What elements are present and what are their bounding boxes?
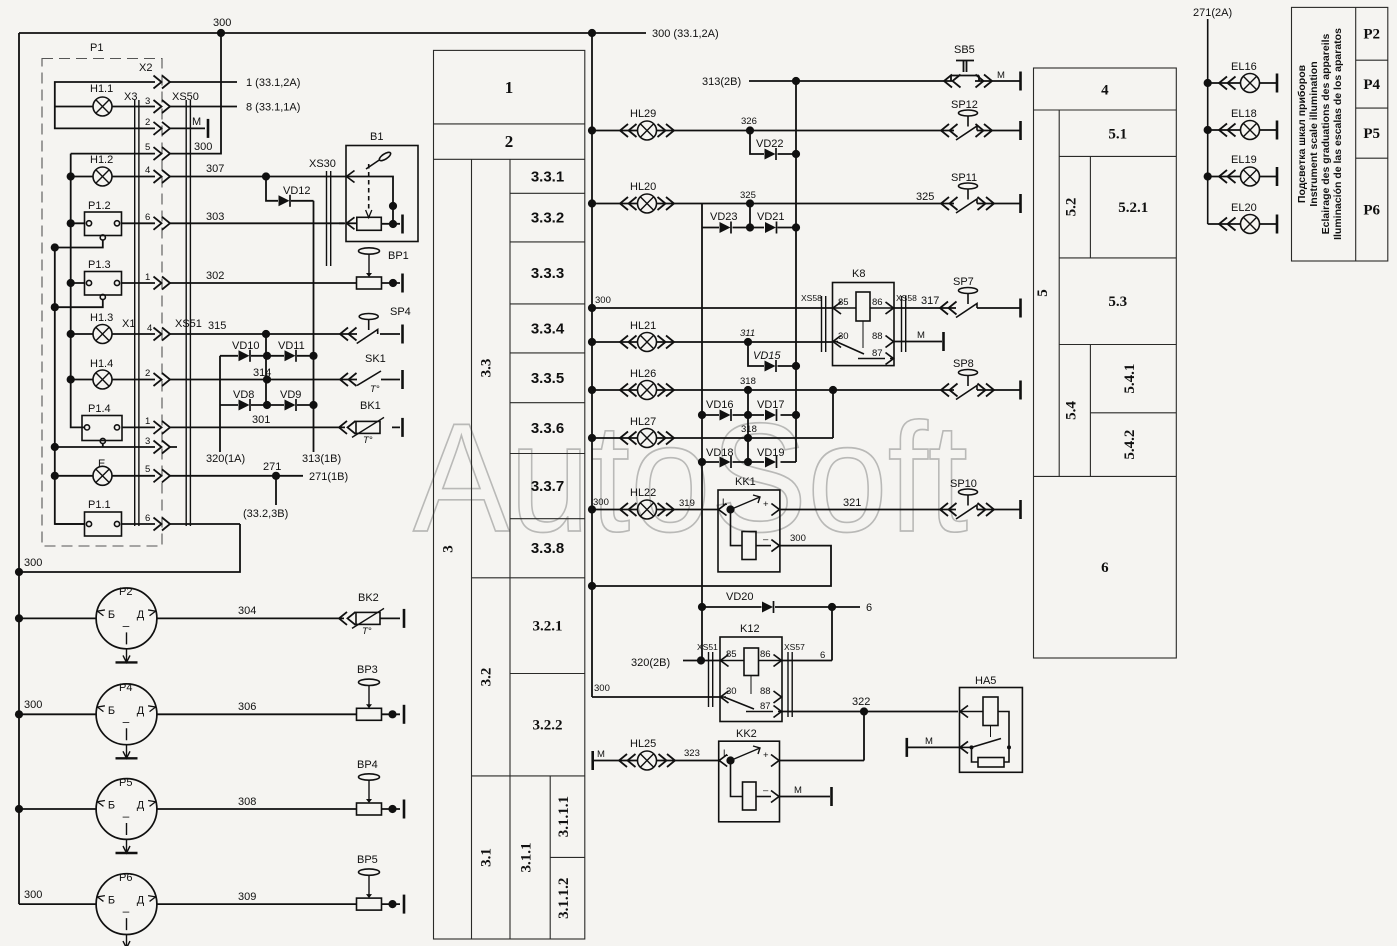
node VD20 out — [828, 603, 836, 611]
svg-text:VD10: VD10 — [232, 340, 260, 352]
wire V3 — [55, 248, 85, 525]
svg-text:3.3.4: 3.3.4 — [531, 320, 565, 337]
node VD15 busB — [792, 362, 800, 370]
wire busB 313 — [795, 81, 797, 462]
node H1.2 left — [67, 172, 75, 180]
node 322 — [860, 707, 868, 715]
wire HL26 row 318 — [592, 389, 1020, 391]
node H1.3 row — [262, 330, 270, 338]
svg-text:SP4: SP4 — [390, 306, 411, 318]
lamp H1.3 — [93, 325, 112, 344]
svg-text:271(2A): 271(2A) — [1193, 7, 1232, 19]
node HL22 bus — [588, 505, 596, 513]
svg-text:313(2B): 313(2B) — [702, 76, 741, 88]
svg-text:HA5: HA5 — [975, 675, 996, 687]
wire H1.2 row — [71, 176, 339, 178]
svg-text:2: 2 — [145, 368, 150, 379]
node BP4 out — [388, 805, 396, 813]
lamp HL21 — [638, 333, 657, 352]
svg-text:M: M — [794, 785, 802, 796]
lamp EL18 — [1241, 121, 1260, 140]
svg-text:3.1: 3.1 — [479, 848, 495, 867]
terminator SP7 — [1020, 299, 1022, 318]
node 318 riser — [829, 386, 837, 394]
relay K8 — [833, 283, 895, 366]
wire 300 drop to row5 — [170, 33, 221, 154]
node 320(2B) busA — [697, 656, 705, 664]
svg-text:1 (33.1,2A): 1 (33.1,2A) — [246, 77, 300, 89]
node VD9 right — [309, 401, 317, 409]
svg-text:Iluminación de las escalas de: Iluminación de las escalas de los aparat… — [1332, 28, 1344, 240]
svg-text:300: 300 — [24, 699, 42, 711]
connector XS57 K12 — [788, 652, 792, 717]
svg-text:BK2: BK2 — [358, 592, 379, 604]
svg-text:M: M — [997, 70, 1005, 81]
lamp HL27 — [638, 429, 657, 448]
svg-text:P5: P5 — [1363, 126, 1380, 142]
wire K12 86 out — [782, 660, 832, 662]
svg-text:3: 3 — [145, 96, 150, 107]
node 313(2B)/busB — [792, 77, 800, 85]
terminator BK1 — [402, 418, 404, 437]
connector XS58 left — [822, 296, 826, 352]
terminator SK1 — [402, 370, 404, 389]
svg-text:HL20: HL20 — [630, 181, 656, 193]
svg-text:311: 311 — [740, 328, 755, 339]
wire P6 row 309 — [19, 903, 400, 905]
connector X3/X1 double line — [135, 100, 139, 526]
node VD18/19 mid — [744, 458, 752, 466]
wire H1.4 row pin2 314 — [71, 379, 340, 381]
terminator SB5 — [1020, 72, 1022, 91]
wire 320(1A) vertical — [219, 356, 221, 452]
svg-text:3.1.1: 3.1.1 — [519, 843, 535, 873]
wire 271 drop — [275, 476, 277, 505]
svg-text:5.4.1: 5.4.1 — [1122, 364, 1138, 394]
svg-text:BP4: BP4 — [357, 759, 378, 771]
svg-text:X2: X2 — [139, 62, 152, 74]
diode VD17 — [765, 409, 777, 421]
lamp HL26 — [638, 381, 657, 400]
gauge P2 — [96, 588, 157, 662]
svg-text:X1: X1 — [122, 318, 135, 330]
sender BP1 — [357, 248, 382, 289]
svg-text:1: 1 — [145, 272, 150, 283]
wire SP4 row — [340, 333, 400, 335]
sender BP5 — [357, 869, 382, 910]
terminator BK2 — [403, 609, 405, 628]
wire V2 feed — [71, 154, 82, 428]
diode VD15 — [765, 360, 777, 372]
lamp EL20 — [1241, 215, 1260, 234]
svg-text:X3: X3 — [124, 91, 137, 103]
lamp HL22 — [638, 500, 657, 519]
lamp H1.2 — [93, 167, 112, 186]
svg-text:–: – — [763, 534, 769, 545]
wire KK2 minus out — [780, 796, 831, 798]
wire P1.3 bottom to V3 — [55, 300, 103, 308]
wire VD18/VD19 row — [702, 461, 796, 463]
node VD8 mid — [263, 401, 271, 409]
svg-text:P2: P2 — [1363, 27, 1380, 43]
switch SK1 thermal — [357, 371, 381, 386]
svg-text:320(2B): 320(2B) — [631, 657, 670, 669]
wire P1.4 row pin1 301 — [82, 426, 340, 428]
svg-text:H1.1: H1.1 — [90, 83, 113, 95]
diode VD23 — [720, 222, 732, 234]
relay K12 — [720, 637, 782, 722]
svg-text:5: 5 — [145, 142, 150, 153]
switch SP8 — [956, 370, 978, 400]
svg-text:300 (33.1,2A): 300 (33.1,2A) — [652, 28, 719, 40]
wire VD22 branch — [750, 131, 796, 155]
svg-text:XS30: XS30 — [309, 158, 336, 170]
svg-text:P1.4: P1.4 — [88, 403, 111, 415]
node 318 — [744, 386, 752, 394]
svg-text:326: 326 — [741, 116, 757, 127]
wire H1.3 drop — [265, 334, 267, 405]
svg-text:M: M — [925, 736, 933, 747]
svg-text:P1.3: P1.3 — [88, 259, 111, 271]
wire 313(2B) row — [749, 80, 1020, 82]
svg-text:3.3.3: 3.3.3 — [531, 265, 564, 282]
node KK2 L — [726, 756, 734, 764]
svg-text:3.2: 3.2 — [479, 668, 495, 687]
block 3.3.1..3.3.8 labels — [531, 168, 565, 557]
svg-text:322: 322 — [852, 696, 870, 708]
terminator HA5 M — [906, 738, 908, 757]
svg-text:3.2.2: 3.2.2 — [533, 718, 563, 734]
chevron BK1 — [339, 421, 356, 434]
node 318 lower — [744, 434, 752, 442]
svg-text:T°: T° — [370, 384, 380, 395]
node KK1 L — [726, 505, 734, 513]
wire P1.2 bottom to V3 — [55, 240, 103, 248]
connector XS50/XS51 double line — [186, 100, 190, 526]
svg-text:Eclairage des graduations des: Eclairage des graduations des appareils — [1320, 33, 1332, 234]
wire KK1 return 300 — [592, 546, 831, 586]
svg-text:5.1: 5.1 — [1108, 126, 1127, 142]
svg-text:XS51: XS51 — [697, 642, 718, 652]
diode VD20 — [762, 601, 774, 613]
node HL29 bus — [588, 126, 596, 134]
node VD18 busA — [698, 458, 706, 466]
node H1.4 left — [67, 375, 75, 383]
svg-text:303: 303 — [206, 211, 224, 223]
svg-text:XS58: XS58 — [896, 293, 917, 303]
svg-text:2: 2 — [145, 117, 150, 128]
svg-text:P1: P1 — [90, 42, 103, 54]
node V3 E — [51, 472, 59, 480]
svg-text:3.3.6: 3.3.6 — [531, 420, 564, 437]
svg-text:BP1: BP1 — [388, 250, 409, 262]
svg-text:6: 6 — [820, 650, 825, 661]
diode VD12 — [279, 195, 291, 207]
wire K8 86 to SP7 — [894, 307, 1020, 309]
wire row pin2 — [55, 107, 205, 129]
svg-text:317: 317 — [921, 295, 939, 307]
lamp EL19 — [1241, 167, 1260, 186]
terminator BP1 — [402, 274, 404, 293]
block table right — [1034, 68, 1177, 658]
wire VD23/VD21 row — [702, 227, 796, 229]
wire P4 row 306 — [19, 713, 400, 715]
svg-text:319: 319 — [679, 498, 695, 509]
wire EL16 row — [1208, 82, 1277, 84]
node BP5 out — [388, 900, 396, 908]
terminator SP12 — [1020, 121, 1022, 140]
wire H1.3 row pin4 315 — [71, 333, 340, 335]
terminator K8 88 M — [943, 332, 945, 351]
svg-text:304: 304 — [238, 605, 256, 617]
wire VD20 row — [702, 606, 860, 608]
svg-text:308: 308 — [238, 796, 256, 808]
svg-text:E: E — [98, 458, 105, 470]
svg-text:P5: P5 — [119, 777, 132, 789]
wire KK1 to SP10 321 — [780, 509, 1020, 511]
resistor block P1.2 — [85, 212, 122, 240]
diode VD21 — [765, 222, 777, 234]
node HL20 bus — [588, 199, 596, 207]
wire HL22 row 319 — [592, 509, 718, 511]
svg-text:5.2: 5.2 — [1063, 198, 1079, 217]
sender BP4 — [357, 774, 382, 815]
svg-text:3.2.1: 3.2.1 — [533, 619, 563, 635]
legend box right — [1292, 7, 1388, 261]
node 325 — [746, 199, 754, 207]
switch SP7 — [956, 288, 978, 318]
node 300 top-left — [217, 29, 225, 37]
terminator BP5 — [403, 895, 405, 914]
wire VD10/VD11 row — [220, 355, 314, 357]
svg-text:HL25: HL25 — [630, 738, 656, 750]
wire KK2 plus out — [780, 760, 865, 762]
wire BK1 row — [340, 426, 400, 428]
svg-text:P1.2: P1.2 — [88, 200, 111, 212]
node 300 top-center — [588, 29, 596, 37]
node 326 — [746, 126, 754, 134]
wire BP1 out — [381, 282, 400, 284]
thermal relay KK2 — [719, 741, 780, 822]
connector XS30 double line — [327, 171, 331, 266]
switch SP4 — [357, 314, 379, 344]
svg-text:–: – — [763, 785, 769, 796]
svg-text:SP10: SP10 — [950, 478, 977, 490]
svg-text:H1.3: H1.3 — [90, 312, 113, 324]
wire P5 row 308 — [19, 808, 400, 810]
wire SK1 row — [340, 379, 400, 381]
wire P2 row 304 — [19, 617, 400, 619]
svg-text:HL26: HL26 — [630, 368, 656, 380]
svg-text:VD11: VD11 — [278, 340, 305, 352]
svg-text:307: 307 — [206, 163, 224, 175]
svg-text:271: 271 — [263, 461, 281, 473]
node VD22 busB — [792, 150, 800, 158]
svg-text:3.1.1.2: 3.1.1.2 — [556, 878, 572, 919]
wire EL20 row — [1208, 223, 1277, 225]
svg-text:3: 3 — [145, 436, 150, 447]
svg-text:SP11: SP11 — [951, 172, 977, 184]
svg-text:+: + — [763, 499, 769, 510]
thermal relay KK1 — [718, 490, 780, 572]
wire 300 left bus — [18, 33, 20, 904]
wire EL18 row — [1208, 129, 1277, 131]
node B1 out — [389, 220, 397, 228]
wire B1 resistor in — [346, 222, 357, 224]
block table center — [434, 50, 585, 939]
gauge P6 — [96, 874, 157, 946]
thermistor BK2 — [352, 608, 384, 628]
svg-text:M: M — [192, 116, 201, 128]
svg-text:EL20: EL20 — [1231, 202, 1257, 214]
svg-text:HL29: HL29 — [630, 108, 656, 120]
svg-text:315: 315 — [208, 320, 226, 332]
svg-text:300: 300 — [594, 683, 610, 694]
svg-text:+: + — [763, 750, 769, 761]
node BP1 out — [389, 279, 397, 287]
svg-text:1: 1 — [505, 78, 514, 97]
svg-text:323: 323 — [684, 748, 700, 759]
svg-text:(33.2,3B): (33.2,3B) — [243, 508, 288, 520]
sender BP3 — [357, 679, 382, 720]
node B1 arm — [389, 202, 397, 210]
connector XS51 K12 — [709, 652, 713, 707]
node bus P2 — [15, 614, 23, 622]
node HL26 bus — [588, 386, 596, 394]
wire P1.2 row pin6 — [71, 222, 345, 224]
diode VD8 — [239, 399, 251, 411]
svg-text:325: 325 — [740, 190, 756, 201]
svg-text:P4: P4 — [119, 682, 132, 694]
wire P1.1 row pin6 — [55, 523, 240, 525]
svg-text:VD19: VD19 — [757, 447, 785, 459]
svg-text:2: 2 — [505, 132, 514, 151]
svg-text:VD16: VD16 — [706, 399, 734, 411]
svg-text:5.4.2: 5.4.2 — [1122, 430, 1138, 460]
node V3 P1.3 — [51, 303, 59, 311]
node HL21 bus — [588, 338, 596, 346]
svg-text:BK1: BK1 — [360, 400, 381, 412]
lamp H1.4 — [93, 370, 112, 389]
svg-text:6: 6 — [866, 602, 872, 614]
terminator HL25 M — [592, 751, 594, 770]
svg-text:86: 86 — [760, 649, 771, 660]
node P1.3 left — [67, 279, 75, 287]
svg-text:88: 88 — [872, 331, 883, 342]
svg-text:300: 300 — [24, 889, 42, 901]
node bus 572 — [15, 568, 23, 576]
svg-text:VD20: VD20 — [726, 591, 754, 603]
node H1.2 row 307 — [262, 172, 270, 180]
svg-text:5: 5 — [1035, 289, 1051, 297]
svg-text:6: 6 — [1101, 560, 1109, 576]
wire B1 resistor out — [381, 223, 400, 225]
svg-text:Instrument scale illumination: Instrument scale illumination — [1308, 61, 1320, 206]
svg-text:6: 6 — [145, 212, 150, 223]
svg-text:300: 300 — [194, 141, 212, 153]
svg-text:XS57: XS57 — [784, 642, 805, 652]
svg-text:271(1B): 271(1B) — [309, 471, 348, 483]
pin arrow B1 upper — [347, 171, 355, 183]
terminator SP10 — [1020, 500, 1022, 519]
node H1.4 row — [263, 375, 271, 383]
terminator SP8 — [1020, 381, 1022, 400]
svg-text:P2: P2 — [119, 586, 132, 598]
svg-text:300: 300 — [24, 557, 42, 569]
node BP3 out — [388, 710, 396, 718]
svg-text:302: 302 — [206, 270, 224, 282]
wire VD20 to K12 — [831, 607, 833, 661]
svg-text:BP3: BP3 — [357, 664, 378, 676]
resistor block P1.1 — [85, 512, 122, 536]
svg-text:P6: P6 — [1363, 203, 1380, 219]
svg-text:4: 4 — [147, 323, 152, 334]
node 271 — [272, 472, 280, 480]
wire VD8/VD9 row — [220, 404, 314, 406]
wire B1 upper pin — [339, 177, 393, 225]
svg-text:VD12: VD12 — [283, 185, 311, 197]
svg-text:VD8: VD8 — [233, 389, 254, 401]
svg-text:HL27: HL27 — [630, 416, 656, 428]
svg-text:VD15: VD15 — [753, 350, 781, 362]
wire 300 center bus — [591, 33, 593, 697]
diode VD18 — [720, 456, 732, 468]
wire HL25 row 323 — [593, 760, 719, 762]
lamp EL16 — [1241, 74, 1260, 93]
switch SP10 — [956, 489, 978, 519]
wire 313(1B) vertical — [313, 201, 315, 452]
svg-text:301: 301 — [252, 414, 270, 426]
node VD17 busB — [792, 411, 800, 419]
svg-text:VD18: VD18 — [706, 447, 734, 459]
relay box P1 dashed — [42, 59, 162, 547]
wire 271(2A) EL bus — [1207, 19, 1209, 224]
svg-text:KK1: KK1 — [735, 476, 756, 488]
svg-text:SP8: SP8 — [953, 358, 974, 370]
svg-text:318: 318 — [740, 376, 756, 387]
terminator KK2 M — [831, 787, 833, 806]
wire K12 87 to 322 — [782, 711, 958, 713]
wire B1 lower pin from XS30 — [339, 222, 344, 224]
pin arrows P1 edge — [154, 76, 171, 531]
svg-text:VD9: VD9 — [280, 389, 301, 401]
lamp HL29 — [638, 121, 657, 140]
wire VD16/VD17 row — [702, 414, 796, 416]
wire HL20 row 325 — [592, 203, 1020, 205]
svg-text:306: 306 — [238, 701, 256, 713]
wire 300 row K8 — [592, 307, 833, 309]
svg-text:K8: K8 — [852, 268, 865, 280]
svg-text:87: 87 — [872, 348, 883, 359]
svg-text:3.3: 3.3 — [479, 359, 495, 378]
svg-text:H1.4: H1.4 — [90, 358, 113, 370]
svg-text:3.3.8: 3.3.8 — [531, 540, 564, 557]
terminator BP3 — [403, 705, 405, 724]
svg-text:T°: T° — [363, 435, 373, 446]
wire HL29 row 326 — [592, 130, 1020, 132]
wire 300 to K12 30 — [592, 696, 720, 698]
wire VD15 branch — [748, 342, 796, 366]
legend multilingual text — [1296, 28, 1344, 240]
svg-text:309: 309 — [238, 891, 256, 903]
wire 325 drop — [749, 204, 751, 228]
node VD23/VD21 mid — [746, 223, 754, 231]
wire P1.4 bottom row3 — [55, 444, 177, 448]
node bus P5 — [15, 805, 23, 813]
node VD21 busB — [792, 223, 800, 231]
sensor box B1 — [346, 146, 418, 242]
svg-text:87: 87 — [760, 701, 771, 712]
